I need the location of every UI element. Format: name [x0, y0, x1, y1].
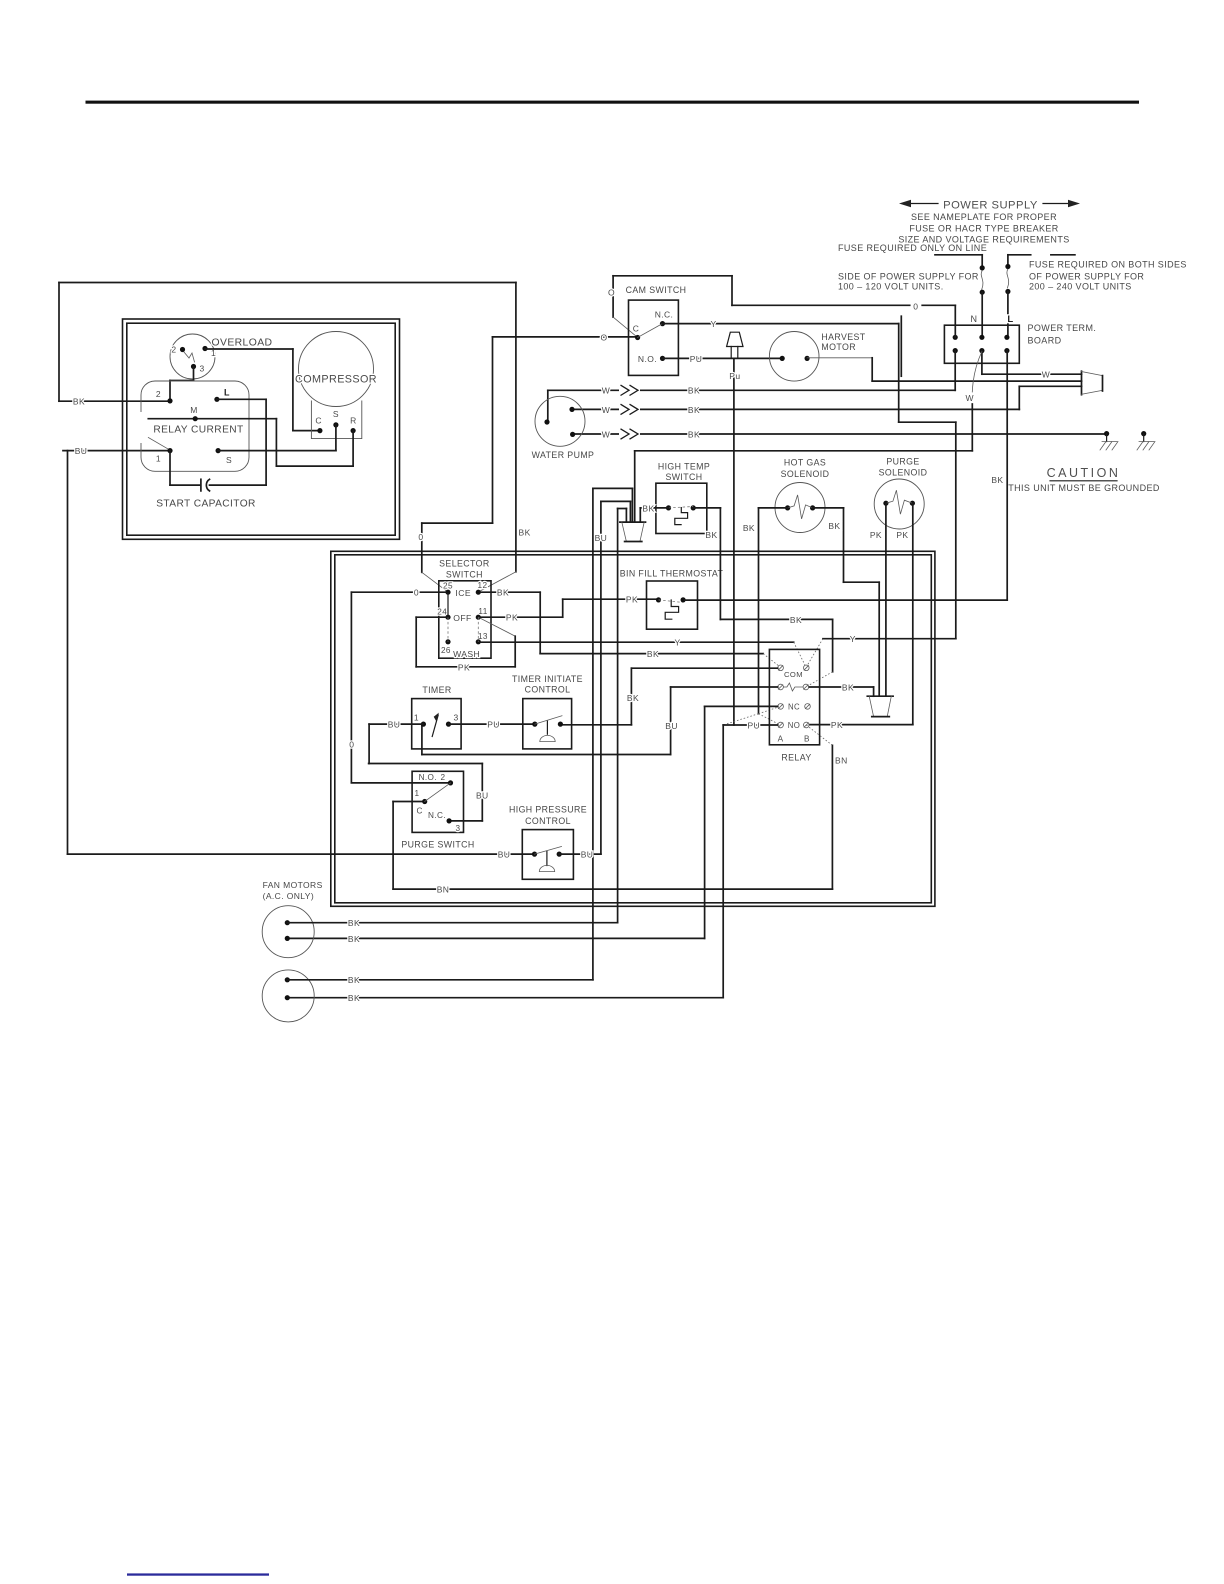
svg-text:PU: PU	[747, 720, 760, 730]
relay current M wire bar	[148, 418, 276, 420]
svg-text:BK: BK	[705, 530, 717, 540]
svg-text:BU: BU	[498, 850, 511, 860]
svg-text:BK: BK	[688, 429, 700, 439]
svg-text:WASH: WASH	[453, 649, 480, 659]
selector terminal 24	[445, 615, 450, 620]
wire PU from cam switch N.O. to harvest motor	[663, 357, 783, 359]
wire PK selector 24 loop	[416, 616, 446, 618]
relay terminal COM left	[778, 665, 784, 671]
timer terminal 1	[421, 722, 426, 727]
svg-text:(A.C. ONLY): (A.C. ONLY)	[263, 891, 314, 901]
high pressure right terminal	[557, 852, 562, 857]
selector arm 11 to wash wire	[478, 617, 515, 636]
svg-text:BK: BK	[790, 615, 802, 625]
power supply plug connector	[1081, 371, 1083, 395]
connector chevrons row1	[619, 384, 640, 396]
wire PU riser to relay	[733, 358, 735, 725]
svg-text:R: R	[350, 416, 357, 426]
svg-text:BK: BK	[73, 397, 85, 407]
wire BK relay NC to fan motor1	[705, 705, 778, 707]
overload terminal 3	[191, 364, 196, 369]
compressor	[299, 332, 374, 407]
svg-text:NC: NC	[788, 703, 800, 712]
svg-text:PK: PK	[626, 595, 638, 605]
svg-text:HIGH PRESSURE: HIGH PRESSURE	[509, 804, 587, 814]
svg-text:W: W	[602, 386, 610, 396]
svg-text:PU: PU	[690, 354, 703, 364]
svg-text:12: 12	[478, 581, 488, 590]
svg-text:W: W	[602, 429, 610, 439]
svg-text:CONTROL: CONTROL	[525, 685, 571, 695]
board terminal L bottom	[1004, 348, 1009, 353]
svg-text:1: 1	[415, 789, 420, 798]
svg-text:0: 0	[913, 301, 918, 311]
relay terminal COM right	[804, 665, 810, 671]
connector chevrons row2	[619, 403, 640, 415]
compressor terminal S	[333, 422, 338, 427]
wire BN relay B to purge switch	[806, 725, 832, 745]
svg-text:BU: BU	[665, 721, 678, 731]
svg-text:OVERLOAD: OVERLOAD	[212, 338, 273, 349]
svg-text:B: B	[804, 735, 810, 744]
svg-text:BK: BK	[519, 528, 531, 538]
high pressure switch arm	[535, 847, 562, 855]
svg-text:0: 0	[414, 588, 419, 598]
wire long run to lower plug	[635, 450, 973, 452]
selector terminal 11	[476, 615, 481, 620]
fuse F2 neutral-side	[1008, 254, 1031, 256]
wire PK selector 11 to bin thermostat	[481, 616, 563, 618]
bin thermostat contact link	[659, 600, 684, 603]
purge solenoid coil symbol	[886, 490, 913, 514]
wire BK hot gas left to relay A	[759, 507, 788, 509]
relay current terminal L	[214, 397, 219, 402]
board terminal center bottom	[979, 348, 984, 353]
relay terminal NO left	[778, 722, 784, 728]
wire O cam switch common to riser	[493, 336, 638, 338]
high pressure control	[522, 830, 573, 880]
harvest motor right terminal	[805, 356, 810, 361]
svg-text:11: 11	[478, 607, 487, 616]
svg-text:L: L	[224, 388, 230, 398]
svg-text:200 – 240 VOLT UNITS: 200 – 240 VOLT UNITS	[1029, 282, 1132, 292]
svg-text:W: W	[965, 393, 973, 403]
wire O selector to purge switch	[351, 591, 446, 593]
harvest motor	[769, 332, 819, 382]
fuse F1 line-side	[935, 254, 982, 256]
relay current terminal 2	[167, 398, 172, 403]
svg-text:BK: BK	[647, 649, 659, 659]
svg-text:24: 24	[437, 608, 447, 617]
current relay	[141, 381, 249, 471]
svg-text:N.C.: N.C.	[655, 310, 674, 320]
harvest motor left terminal	[780, 356, 785, 361]
water pump terminal 2	[569, 407, 574, 412]
relay current terminal M	[193, 416, 198, 421]
timer initiate pressure element	[546, 721, 548, 734]
svg-text:ICE: ICE	[455, 588, 471, 598]
svg-text:BIN FILL THERMOSTAT: BIN FILL THERMOSTAT	[620, 569, 724, 579]
wire to relay COM left	[632, 667, 778, 669]
hot gas left terminal	[785, 505, 790, 510]
overload heater element	[184, 352, 195, 362]
svg-text:HOT GAS: HOT GAS	[784, 458, 826, 468]
svg-text:S: S	[333, 409, 339, 419]
wire riser fan motor1 top	[617, 509, 619, 923]
selector link 24-26 dashed	[447, 617, 449, 642]
svg-text:BK: BK	[497, 588, 509, 598]
wire W board to power plug	[981, 351, 983, 375]
purge solenoid	[874, 479, 924, 529]
svg-text:SEE NAMEPLATE FOR PROPER: SEE NAMEPLATE FOR PROPER	[911, 212, 1057, 222]
bin fill thermostat	[647, 581, 698, 629]
purge solenoid left terminal	[883, 501, 888, 506]
wire riser fan motor2 top	[592, 488, 594, 979]
water pump	[535, 396, 585, 446]
svg-text:1: 1	[414, 713, 419, 723]
svg-text:1: 1	[156, 454, 161, 464]
fan motor2 terminal bottom	[285, 995, 290, 1000]
svg-text:FAN MOTORS: FAN MOTORS	[263, 880, 323, 890]
svg-text:SIDE OF POWER SUPPLY FOR: SIDE OF POWER SUPPLY FOR	[838, 272, 979, 282]
wire PK bin thermostat to power board L	[685, 599, 1007, 601]
wire BK high temp to lower plug	[640, 507, 668, 509]
svg-text:BK: BK	[627, 693, 639, 703]
wire PK purge left to middle plug	[885, 503, 887, 695]
svg-text:O: O	[600, 332, 607, 342]
selector link 25-24	[447, 592, 449, 617]
svg-text:M: M	[190, 405, 197, 415]
compressor terminal R	[351, 428, 356, 433]
timer pointer	[432, 715, 438, 737]
svg-text:BK: BK	[348, 993, 360, 1003]
svg-text:BN: BN	[835, 755, 848, 765]
purge switch terminal NO 2	[448, 780, 453, 785]
svg-text:Y: Y	[674, 638, 680, 648]
svg-text:W: W	[1042, 370, 1050, 380]
svg-text:PK: PK	[506, 613, 518, 623]
svg-text:FUSE REQUIRED ON BOTH SIDES: FUSE REQUIRED ON BOTH SIDES	[1029, 260, 1187, 270]
svg-text:FUSE OR HACR TYPE BREAKER: FUSE OR HACR TYPE BREAKER	[909, 223, 1058, 233]
svg-text:BK: BK	[348, 975, 360, 985]
high pressure element	[546, 852, 548, 866]
svg-text:SOLENOID: SOLENOID	[879, 468, 928, 478]
relay current terminal 1	[167, 448, 172, 453]
svg-text:Y: Y	[850, 634, 856, 644]
svg-text:25: 25	[443, 582, 453, 591]
svg-text:BK: BK	[688, 405, 700, 415]
svg-text:COM: COM	[784, 670, 803, 679]
svg-text:PK: PK	[896, 530, 908, 540]
fan motor 2	[262, 970, 314, 1022]
bin thermostat sensing element	[665, 600, 678, 619]
purge switch terminal C 1	[422, 799, 427, 804]
timer terminal 3	[446, 722, 451, 727]
svg-text:BK: BK	[991, 475, 1003, 485]
board terminal center top	[979, 335, 984, 340]
wire PU timer 3 to timer initiate control	[449, 723, 535, 725]
connector chevrons row3	[619, 428, 640, 440]
relay terminal switch left	[778, 684, 784, 690]
high temp switch	[656, 483, 707, 533]
relay	[769, 649, 819, 744]
selector link 11-13 dashed	[477, 617, 479, 642]
bin thermostat right terminal	[681, 597, 686, 602]
svg-text:26: 26	[441, 646, 451, 655]
fan motor 1	[262, 906, 314, 958]
relay terminal NC left	[778, 704, 784, 710]
svg-text:POWER SUPPLY: POWER SUPPLY	[943, 200, 1038, 212]
svg-text:POWER TERM.: POWER TERM.	[1028, 323, 1097, 333]
cam switch N.C. terminal	[660, 321, 665, 326]
svg-text:BU: BU	[595, 533, 608, 543]
svg-text:HIGH TEMP: HIGH TEMP	[658, 462, 710, 472]
high temp left terminal	[666, 505, 671, 510]
svg-text:FUSE REQUIRED ONLY ON LINE: FUSE REQUIRED ONLY ON LINE	[838, 243, 987, 253]
board terminal N bottom	[953, 348, 958, 353]
svg-text:BU: BU	[75, 446, 88, 456]
wire BU timer branch to purge switch NC	[368, 724, 370, 763]
overload terminal 2	[180, 347, 185, 352]
wire water pump row2 to power plug	[572, 408, 1019, 410]
svg-text:N.O.: N.O.	[638, 354, 657, 364]
wire Y from cam switch N.C.	[663, 323, 899, 325]
high temp right terminal	[691, 505, 696, 510]
wire BU feed to timer 1	[369, 723, 423, 725]
wire BK relay to middle plug	[809, 686, 874, 688]
blue footer line	[127, 1573, 269, 1575]
high pressure left terminal	[532, 852, 537, 857]
svg-text:PURGE: PURGE	[886, 457, 919, 467]
svg-text:COMPRESSOR: COMPRESSOR	[295, 374, 377, 386]
middle plug connector	[867, 695, 893, 697]
cam switch common terminal	[635, 335, 640, 340]
svg-text:PURGE SWITCH: PURGE SWITCH	[401, 840, 474, 850]
relay terminal NO right	[804, 722, 810, 728]
svg-text:BK: BK	[348, 918, 360, 928]
page top rule	[86, 101, 1140, 104]
wire PU fan motor2 to relay NO	[723, 724, 778, 726]
wire BK fan motor1 top	[287, 922, 617, 924]
svg-text:2: 2	[171, 345, 176, 355]
svg-text:Pu: Pu	[729, 371, 740, 381]
selector switch	[439, 581, 491, 658]
svg-text:SOLENOID: SOLENOID	[781, 469, 830, 479]
svg-text:Y: Y	[710, 319, 716, 329]
purge solenoid right terminal	[910, 501, 915, 506]
svg-text:SWITCH: SWITCH	[446, 570, 483, 580]
power terminal board	[944, 325, 1019, 363]
selector terminal 13	[476, 639, 481, 644]
connector plug above PU wire	[727, 332, 743, 346]
timer initiate control	[523, 699, 572, 749]
compressor compartment box	[123, 319, 400, 539]
wire relay L to start capacitor	[217, 398, 266, 400]
svg-text:0: 0	[349, 740, 354, 750]
wire relay M to compressor R	[275, 419, 277, 466]
hot gas solenoid	[775, 483, 825, 533]
fan motor2 terminal top	[285, 977, 290, 982]
svg-text:BK: BK	[348, 934, 360, 944]
svg-text:PK: PK	[458, 663, 470, 673]
svg-text:CONTROL: CONTROL	[525, 816, 571, 826]
wire Y selector 13 to relay COM	[481, 641, 794, 643]
svg-text:SWITCH: SWITCH	[665, 472, 702, 482]
svg-text:BU: BU	[581, 850, 594, 860]
ground symbol second	[1141, 431, 1146, 436]
svg-text:N.O.: N.O.	[419, 773, 437, 782]
svg-text:2: 2	[156, 389, 161, 399]
svg-text:RELAY CURRENT: RELAY CURRENT	[153, 425, 243, 436]
timer	[412, 699, 461, 749]
wire BU timer to relay switch	[671, 686, 778, 688]
svg-text:BU: BU	[476, 791, 489, 801]
board terminal L top	[1004, 335, 1009, 340]
relay switch element	[783, 683, 803, 691]
ground symbol at water pump row3	[1104, 431, 1109, 436]
relay current switch arm	[148, 438, 170, 451]
fan motor1 terminal bottom	[285, 936, 290, 941]
wire riser to lower plug pin1	[593, 487, 633, 489]
wire BK selector 12 to relay COM	[481, 591, 541, 593]
svg-text:N: N	[971, 314, 978, 324]
relay current terminal S	[216, 448, 221, 453]
svg-text:PK: PK	[870, 530, 882, 540]
svg-text:C: C	[315, 416, 322, 426]
wire BK hot gas right to lower middle plug	[813, 507, 844, 509]
svg-text:PU: PU	[487, 720, 500, 730]
svg-text:TIMER: TIMER	[422, 685, 451, 695]
svg-text:NO: NO	[788, 721, 801, 730]
wire water pump row3 to ground	[573, 433, 1107, 435]
svg-text:MOTOR: MOTOR	[821, 342, 856, 352]
svg-text:BU: BU	[388, 720, 401, 730]
purge switch terminal NC 3	[447, 818, 452, 823]
purge switch	[412, 771, 463, 832]
timer initiate left terminal	[532, 722, 537, 727]
wire segment crossing near O line	[900, 316, 902, 376]
selector terminal 12	[476, 590, 481, 595]
svg-text:HARVEST: HARVEST	[821, 332, 865, 342]
water pump terminal 1	[544, 419, 549, 424]
svg-text:BOARD: BOARD	[1028, 336, 1062, 346]
svg-text:CAUTION: CAUTION	[1047, 466, 1121, 480]
wire compressor S to relay S	[335, 425, 337, 451]
fan motor1 terminal top	[285, 920, 290, 925]
wire riser to lower plug pin3	[618, 508, 627, 510]
start capacitor	[200, 479, 202, 491]
svg-text:BN: BN	[437, 885, 450, 895]
selector terminal 26	[445, 639, 450, 644]
svg-text:S: S	[226, 455, 232, 465]
control compartment box	[331, 551, 935, 906]
svg-text:L: L	[1007, 314, 1013, 325]
lower plug connector	[620, 521, 646, 523]
wire BU high pressure to riser	[559, 853, 601, 855]
cam switch	[629, 300, 679, 375]
svg-text:3: 3	[454, 713, 459, 723]
wire W board curved riser	[972, 352, 982, 393]
svg-text:A: A	[778, 735, 784, 744]
timer initiate right terminal	[558, 722, 563, 727]
svg-text:CAM SWITCH: CAM SWITCH	[626, 285, 687, 295]
svg-text:SELECTOR: SELECTOR	[439, 559, 489, 569]
relay terminal switch right	[803, 684, 809, 690]
svg-text:C: C	[416, 807, 422, 816]
compressor terminal C	[317, 428, 322, 433]
wire BK fan motor2 top	[287, 979, 593, 981]
wire BU riser high pressure to plug	[600, 501, 602, 854]
svg-text:N.C.: N.C.	[428, 811, 446, 820]
hot gas right terminal	[810, 505, 815, 510]
overload terminal 1	[202, 346, 207, 351]
wire riser to lower plug pin2	[601, 500, 631, 502]
svg-text:BK: BK	[743, 523, 755, 533]
svg-text:OFF: OFF	[453, 613, 471, 623]
svg-text:W: W	[602, 405, 610, 415]
wire overload 1 to compressor C	[205, 348, 293, 350]
svg-text:2: 2	[441, 773, 446, 782]
wire overload 3 to relay terminal 2	[193, 367, 195, 381]
bin thermostat left terminal	[656, 597, 661, 602]
board terminal N top	[953, 335, 958, 340]
svg-text:TIMER INITIATE: TIMER INITIATE	[512, 674, 583, 684]
relay terminal NC right	[805, 704, 811, 710]
wire relay 1 to start capacitor	[169, 451, 171, 486]
wire BK high temp right to relay	[693, 507, 720, 509]
svg-text:BK: BK	[688, 386, 700, 396]
wire BU outer feed	[63, 450, 170, 452]
high temp contact link	[669, 507, 694, 508]
hot gas coil symbol	[788, 495, 813, 519]
wire BK outer frame feed	[59, 282, 516, 284]
wire stub right of fuse F2	[1051, 254, 1075, 256]
purge switch arm	[425, 783, 451, 802]
svg-text:3: 3	[456, 824, 461, 833]
cam switch N.O. terminal	[660, 356, 665, 361]
wire O power feed to cam switch	[612, 276, 614, 317]
timer initiate switch arm	[535, 716, 562, 724]
selector terminal 25	[445, 590, 450, 595]
overload protector	[170, 334, 215, 379]
svg-text:WATER PUMP: WATER PUMP	[532, 450, 595, 460]
wire PK purge right to relay NO	[912, 503, 914, 724]
wire harvest motor to power plug	[807, 357, 872, 359]
svg-text:PK: PK	[831, 720, 843, 730]
svg-text:O: O	[608, 288, 615, 298]
svg-text:RELAY: RELAY	[781, 753, 811, 763]
wire water pump row1 to board N	[547, 390, 549, 422]
water pump terminal 3	[570, 432, 575, 437]
svg-text:THIS UNIT MUST BE GROUNDED: THIS UNIT MUST BE GROUNDED	[1008, 483, 1160, 493]
svg-text:BK: BK	[642, 503, 654, 513]
svg-text:BK: BK	[842, 683, 854, 693]
svg-text:BK: BK	[828, 521, 840, 531]
cam switch arm	[638, 324, 663, 338]
svg-text:START CAPACITOR: START CAPACITOR	[156, 499, 256, 510]
svg-text:OF POWER SUPPLY FOR: OF POWER SUPPLY FOR	[1029, 272, 1144, 282]
high temp sensing element	[675, 508, 688, 525]
compressor terminal bracket	[311, 401, 361, 439]
svg-text:3: 3	[200, 364, 205, 374]
svg-text:C: C	[633, 324, 640, 334]
svg-text:100 – 120 VOLT UNITS.: 100 – 120 VOLT UNITS.	[838, 282, 944, 292]
svg-text:0: 0	[418, 532, 423, 542]
